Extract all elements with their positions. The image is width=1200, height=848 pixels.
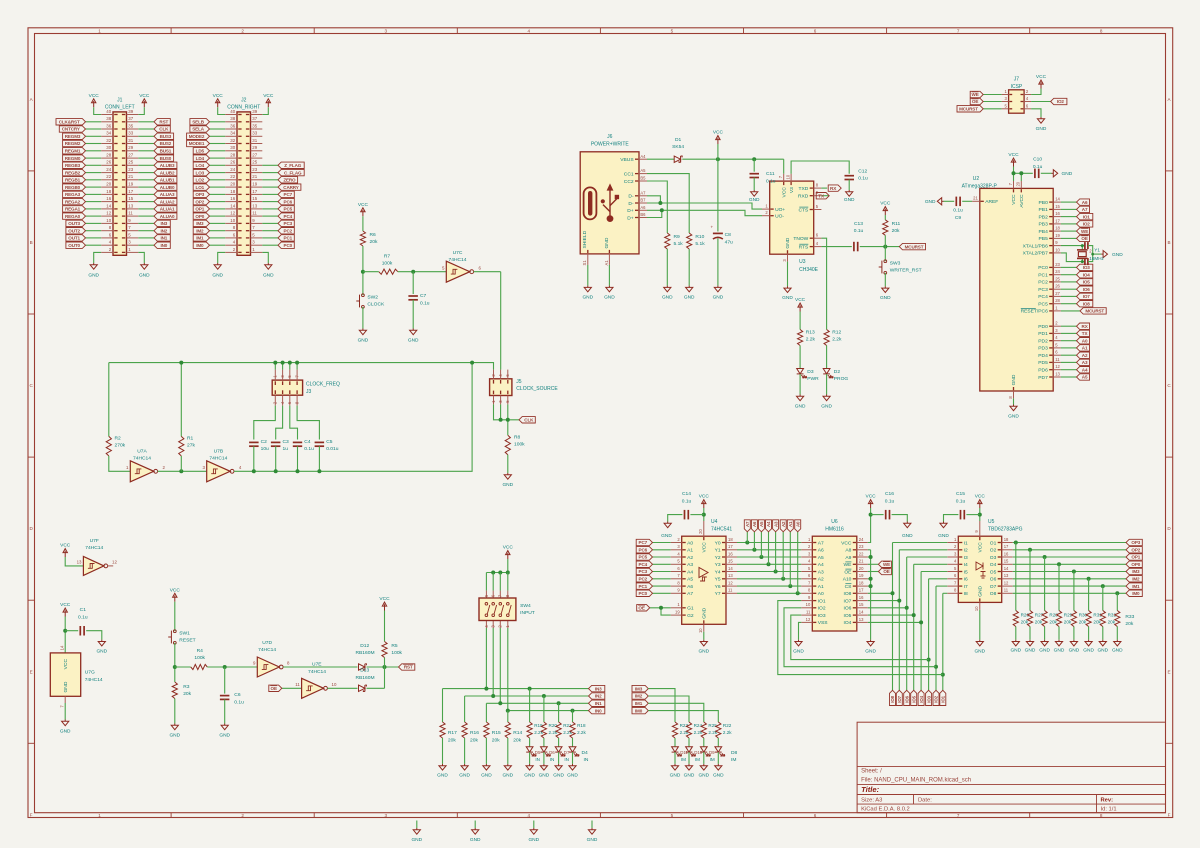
svg-text:PD3: PD3 [1038,346,1048,352]
svg-text:ALUB2: ALUB2 [160,170,175,175]
svg-text:34: 34 [106,131,111,136]
svg-text:28: 28 [106,153,111,158]
svg-text:R19: R19 [534,723,543,728]
svg-text:REGA2: REGA2 [65,199,81,204]
svg-text:TNOW: TNOW [793,236,808,242]
svg-text:26: 26 [230,160,235,165]
svg-text:RST: RST [404,665,413,670]
svg-text:GND: GND [1039,647,1050,653]
svg-text:GND: GND [408,337,419,343]
svg-text:11: 11 [806,610,811,615]
svg-text:27k: 27k [187,443,195,449]
svg-text:PC4: PC4 [1038,294,1048,300]
svg-text:A3: A3 [818,569,824,575]
svg-text:IO1: IO1 [941,695,946,702]
svg-text:ALUB3: ALUB3 [160,163,175,168]
svg-text:RESET/PC6: RESET/PC6 [1021,309,1048,315]
svg-text:R5: R5 [391,643,398,649]
svg-text:A9: A9 [845,555,851,561]
svg-text:26: 26 [1055,284,1060,289]
svg-text:13: 13 [128,203,133,208]
svg-text:R7: R7 [384,254,391,260]
svg-text:A6: A6 [1082,200,1088,205]
svg-text:10: 10 [806,602,811,607]
svg-text:A1: A1 [788,521,793,527]
svg-text:RXD: RXD [798,194,809,200]
svg-text:OE: OE [844,569,852,575]
svg-text:GND: GND [1010,647,1021,653]
svg-text:32: 32 [230,138,235,143]
svg-text:VCC: VCC [841,540,852,546]
svg-text:REGA0: REGA0 [65,214,81,219]
svg-text:GND: GND [502,482,513,488]
svg-text:24: 24 [1055,269,1060,274]
svg-text:D-: D- [628,201,634,207]
svg-text:37: 37 [252,116,257,121]
svg-text:IO8: IO8 [890,695,895,702]
svg-text:VCC: VCC [1036,74,1047,80]
svg-text:0.1u: 0.1u [956,499,966,505]
svg-text:IM3: IM3 [1132,569,1140,574]
svg-text:GND: GND [844,197,855,203]
svg-text:13: 13 [252,203,257,208]
svg-text:REGM0: REGM0 [65,156,81,161]
svg-text:GND: GND [139,273,150,279]
svg-text:R1: R1 [187,436,194,442]
svg-text:16: 16 [1055,211,1060,216]
svg-text:GND: GND [974,649,985,655]
svg-text:IM2: IM2 [635,694,643,699]
svg-text:REGM2: REGM2 [65,141,81,146]
svg-text:GND: GND [169,732,180,738]
svg-text:V3: V3 [789,187,795,193]
svg-text:21: 21 [973,196,978,201]
svg-text:17: 17 [1004,544,1009,549]
svg-text:IM0: IM0 [1132,591,1140,596]
svg-text:5: 5 [671,28,674,33]
svg-text:C1: C1 [80,607,87,613]
svg-text:A10: A10 [843,577,852,583]
svg-text:Y1: Y1 [1094,247,1100,252]
svg-text:OE: OE [972,99,978,104]
svg-text:VCC: VCC [63,659,69,670]
svg-text:28: 28 [230,153,235,158]
svg-text:F: F [30,812,33,817]
svg-text:28: 28 [1055,298,1060,303]
svg-text:PD2: PD2 [1038,339,1048,345]
svg-text:O7: O7 [990,584,997,590]
svg-text:34: 34 [230,131,235,136]
svg-text:R8: R8 [514,434,521,440]
svg-text:C11: C11 [766,171,775,177]
svg-text:REGA3: REGA3 [65,192,81,197]
svg-text:D7: D7 [564,750,570,755]
svg-text:10: 10 [332,682,337,687]
svg-text:CLOCK_SOURCE: CLOCK_SOURCE [516,386,558,392]
svg-text:GND: GND [1025,647,1036,653]
svg-text:PB0: PB0 [1039,200,1049,206]
svg-text:CARRY: CARRY [283,185,298,190]
svg-text:2: 2 [241,813,244,818]
svg-text:3: 3 [385,28,388,33]
svg-text:GND: GND [212,273,223,279]
svg-text:R24: R24 [694,723,703,728]
svg-text:7: 7 [957,813,960,818]
svg-text:HM6116: HM6116 [825,527,844,533]
svg-text:74HC14: 74HC14 [209,455,227,461]
svg-text:A7: A7 [818,540,824,546]
svg-text:GND: GND [713,294,724,300]
svg-text:OP2: OP2 [195,199,204,204]
svg-text:IM1: IM1 [1132,584,1140,589]
svg-text:SHIELD: SHIELD [582,230,588,248]
svg-text:+: + [711,225,714,230]
svg-text:GND: GND [702,607,708,618]
svg-text:14: 14 [106,203,111,208]
svg-text:D3: D3 [807,369,814,375]
svg-text:U5: U5 [988,519,995,525]
svg-text:VCC: VCC [379,596,390,602]
svg-text:D-: D- [628,194,634,200]
svg-text:21: 21 [859,559,864,564]
svg-text:C16: C16 [885,491,894,497]
svg-text:IO3: IO3 [818,613,826,619]
svg-text:IM: IM [681,757,686,762]
svg-text:20: 20 [859,566,864,571]
svg-text:XTAL2/PB7: XTAL2/PB7 [1023,251,1048,257]
svg-text:15: 15 [128,196,133,201]
svg-text:GND: GND [1054,647,1065,653]
svg-text:D1: D1 [675,137,682,143]
svg-text:A3: A3 [773,521,778,527]
svg-text:4: 4 [528,28,531,33]
svg-text:ZERO: ZERO [283,178,296,183]
svg-text:IO8: IO8 [844,591,852,597]
svg-text:O6: O6 [990,577,997,583]
svg-text:U7G: U7G [85,670,95,676]
svg-text:PC2: PC2 [639,577,648,582]
svg-text:IM0: IM0 [635,708,643,713]
svg-text:OP2: OP2 [1131,548,1140,553]
svg-text:A2: A2 [818,577,824,583]
svg-text:C7: C7 [420,293,427,299]
svg-text:IN2: IN2 [160,228,167,233]
svg-text:PC0: PC0 [1038,265,1048,271]
svg-text:Z_FLAG: Z_FLAG [284,163,302,168]
svg-text:PC2: PC2 [284,228,293,233]
svg-text:A3: A3 [687,562,693,568]
svg-text:PB3: PB3 [1039,222,1049,228]
svg-text:B: B [30,240,33,245]
svg-text:REGM3: REGM3 [65,134,81,139]
svg-text:18: 18 [859,581,864,586]
svg-text:16: 16 [728,551,733,556]
svg-text:10: 10 [230,218,235,223]
svg-text:8: 8 [1100,813,1103,818]
svg-text:U7C: U7C [453,250,463,256]
svg-text:PB4: PB4 [1039,229,1049,235]
svg-text:18: 18 [728,537,733,542]
svg-text:C4: C4 [304,439,311,445]
svg-text:J3: J3 [306,389,312,395]
svg-text:0.1u: 0.1u [766,179,776,185]
svg-text:GND: GND [459,773,470,779]
svg-text:REGA1: REGA1 [65,207,81,212]
svg-text:10: 10 [974,606,979,611]
svg-text:11: 11 [295,682,300,687]
svg-text:IN0: IN0 [160,243,167,248]
svg-text:19: 19 [252,182,257,187]
svg-text:Y0: Y0 [715,540,721,546]
svg-text:REGB3: REGB3 [65,163,81,168]
svg-text:Y3: Y3 [715,562,721,568]
svg-text:25: 25 [1055,276,1060,281]
svg-text:21: 21 [128,174,133,179]
svg-text:20k: 20k [1049,620,1057,625]
svg-text:ALUB0: ALUB0 [160,185,175,190]
svg-text:CS: CS [845,584,853,590]
svg-text:22: 22 [859,551,864,556]
svg-text:PC7: PC7 [284,192,293,197]
svg-text:IO1: IO1 [818,598,826,604]
svg-text:C6: C6 [234,692,241,698]
svg-text:Rev:: Rev: [1101,798,1114,804]
svg-text:R4: R4 [197,648,204,654]
svg-text:R9: R9 [674,234,681,240]
svg-text:A1: A1 [818,584,824,590]
svg-text:REGB2: REGB2 [65,170,81,175]
svg-text:GND: GND [1069,647,1080,653]
svg-text:5: 5 [671,813,674,818]
svg-text:1: 1 [98,28,101,33]
svg-text:1u: 1u [283,446,289,452]
svg-text:WE: WE [844,562,853,568]
svg-text:GND: GND [684,294,695,300]
svg-text:IM2: IM2 [1132,577,1140,582]
svg-text:LO1: LO1 [196,185,205,190]
svg-text:WE: WE [1081,229,1088,234]
svg-text:J7: J7 [1014,77,1020,83]
svg-text:RST: RST [159,120,168,125]
svg-text:PD6: PD6 [1038,368,1048,374]
svg-text:WE: WE [883,562,890,567]
svg-text:12: 12 [806,617,811,622]
svg-text:12: 12 [112,560,117,565]
svg-text:BUS0: BUS0 [160,156,172,161]
svg-text:B: B [1167,240,1170,245]
svg-text:Id: 1/1: Id: 1/1 [1101,807,1117,813]
svg-text:23: 23 [859,544,864,549]
svg-text:IO6: IO6 [1083,287,1091,292]
svg-text:IN3: IN3 [160,221,167,226]
svg-text:I8: I8 [964,591,968,597]
svg-text:MCURST: MCURST [959,107,978,112]
svg-text:10: 10 [106,218,111,223]
svg-text:IM: IM [731,757,736,763]
svg-text:R14: R14 [513,730,522,736]
svg-text:A0: A0 [1082,338,1088,343]
svg-text:25: 25 [252,160,257,165]
svg-text:D6: D6 [549,750,555,755]
svg-text:38: 38 [106,116,111,121]
svg-text:14: 14 [59,645,64,650]
svg-text:VCC: VCC [358,202,369,208]
svg-text:PB1: PB1 [1039,207,1049,213]
svg-text:PC3: PC3 [639,569,648,574]
svg-text:IM: IM [695,757,700,762]
svg-text:R12: R12 [832,329,841,335]
svg-text:A2: A2 [687,555,693,561]
svg-text:GND: GND [502,773,513,779]
svg-text:12: 12 [1055,364,1060,369]
svg-text:0.1u: 0.1u [234,699,244,705]
svg-text:27: 27 [1055,291,1060,296]
svg-text:SW1: SW1 [179,631,190,637]
svg-text:A5: A5 [1082,375,1088,380]
svg-text:23: 23 [128,167,133,172]
svg-text:BUS3: BUS3 [160,134,172,139]
svg-text:R13: R13 [806,329,815,335]
svg-text:17: 17 [128,189,133,194]
svg-text:GND: GND [865,649,876,655]
svg-text:C2: C2 [261,439,268,445]
svg-text:IN0: IN0 [595,708,602,713]
svg-text:PC3: PC3 [1038,287,1048,293]
svg-text:18: 18 [106,189,111,194]
svg-text:GND: GND [782,295,793,301]
svg-text:GND: GND [587,837,598,843]
svg-text:100k: 100k [194,655,205,661]
svg-text:16: 16 [106,196,111,201]
svg-text:13: 13 [728,573,733,578]
svg-text:GND: GND [604,294,615,300]
svg-text:REGB0: REGB0 [65,185,81,190]
svg-text:A5: A5 [759,521,764,527]
svg-text:14: 14 [1004,566,1009,571]
svg-text:74HC541: 74HC541 [711,527,732,533]
svg-text:GND: GND [60,728,71,734]
svg-text:21: 21 [252,174,257,179]
svg-text:GND: GND [821,403,832,409]
svg-text:A6: A6 [687,584,693,590]
svg-text:IO2: IO2 [934,695,939,702]
svg-text:GND: GND [528,837,539,843]
svg-text:R15: R15 [492,730,501,736]
svg-text:CLK: CLK [524,418,534,423]
svg-text:INPUT: INPUT [520,610,535,616]
svg-text:GND: GND [604,237,610,248]
svg-text:GND: GND [793,649,804,655]
svg-text:CLOCK_FREQ: CLOCK_FREQ [306,382,340,388]
svg-text:12: 12 [230,211,235,216]
svg-text:GND: GND [1008,413,1019,419]
svg-text:40: 40 [230,109,235,114]
svg-text:SELA: SELA [192,127,204,132]
svg-text:CLK: CLK [159,127,169,132]
svg-text:CC2: CC2 [624,179,634,185]
svg-text:D5: D5 [535,750,541,755]
svg-text:20k: 20k [513,737,521,743]
svg-text:0.1u: 0.1u [885,499,895,505]
svg-text:10u: 10u [261,446,269,452]
svg-text:LD5: LD5 [196,149,205,154]
svg-text:IN1: IN1 [160,236,167,241]
svg-text:D9: D9 [709,750,715,755]
svg-text:PD0: PD0 [1038,324,1048,330]
svg-text:OP1: OP1 [195,207,204,212]
svg-text:PC4: PC4 [639,562,648,567]
svg-text:C13: C13 [854,221,863,227]
svg-text:D4: D4 [582,750,589,756]
svg-text:PD5: PD5 [1038,360,1048,366]
svg-text:20k: 20k [370,239,378,245]
svg-text:OUT1: OUT1 [68,236,80,241]
svg-text:VCC: VCC [60,602,71,608]
svg-text:I6: I6 [964,577,968,583]
svg-text:20k: 20k [1108,620,1116,625]
svg-text:J1: J1 [117,97,123,103]
svg-text:IO1: IO1 [1083,214,1091,219]
svg-text:PD1: PD1 [1038,331,1048,337]
svg-text:IN: IN [535,757,540,762]
svg-text:XTAL1/PB6: XTAL1/PB6 [1023,243,1048,249]
svg-text:O8: O8 [990,591,997,597]
svg-text:20k: 20k [448,737,456,743]
svg-text:20k: 20k [1079,620,1087,625]
svg-text:5.1k: 5.1k [674,241,684,247]
svg-text:GND: GND [978,585,984,596]
svg-text:I5: I5 [964,569,968,575]
svg-text:100k: 100k [391,650,402,656]
svg-text:OP3: OP3 [195,192,204,197]
svg-text:PC5: PC5 [1038,302,1048,308]
svg-text:R2: R2 [115,436,122,442]
svg-text:2.2k: 2.2k [723,730,732,735]
svg-text:C9: C9 [955,215,962,221]
svg-text:I1: I1 [964,540,968,546]
svg-text:36: 36 [106,123,111,128]
svg-text:POWER+WRITE: POWER+WRITE [591,141,630,147]
svg-text:IO7: IO7 [844,598,852,604]
svg-text:CNTCRY: CNTCRY [62,127,80,132]
svg-text:OE: OE [271,686,277,691]
svg-text:8: 8 [1100,28,1103,33]
svg-text:6: 6 [814,813,817,818]
svg-text:36: 36 [230,123,235,128]
svg-text:0.1u: 0.1u [682,499,692,505]
svg-text:VCC: VCC [60,543,71,549]
svg-text:A6: A6 [752,521,757,527]
svg-text:24: 24 [106,167,111,172]
svg-text:CH340E: CH340E [799,267,819,273]
svg-text:IO2: IO2 [818,606,826,612]
svg-text:D2: D2 [834,369,841,375]
svg-text:RX: RX [830,186,837,191]
svg-text:GND: GND [785,237,791,248]
svg-text:R22: R22 [723,723,732,728]
svg-text:11: 11 [128,211,133,216]
svg-text:REGB1: REGB1 [65,178,81,183]
svg-text:17: 17 [859,588,864,593]
svg-text:0.1u: 0.1u [953,207,963,213]
svg-text:10: 10 [698,628,703,633]
svg-text:35: 35 [128,123,133,128]
svg-text:R3: R3 [183,684,190,690]
svg-text:16: 16 [1004,551,1009,556]
svg-text:R20: R20 [549,723,558,728]
svg-text:20k: 20k [1125,621,1133,627]
svg-text:B7: B7 [640,198,646,203]
